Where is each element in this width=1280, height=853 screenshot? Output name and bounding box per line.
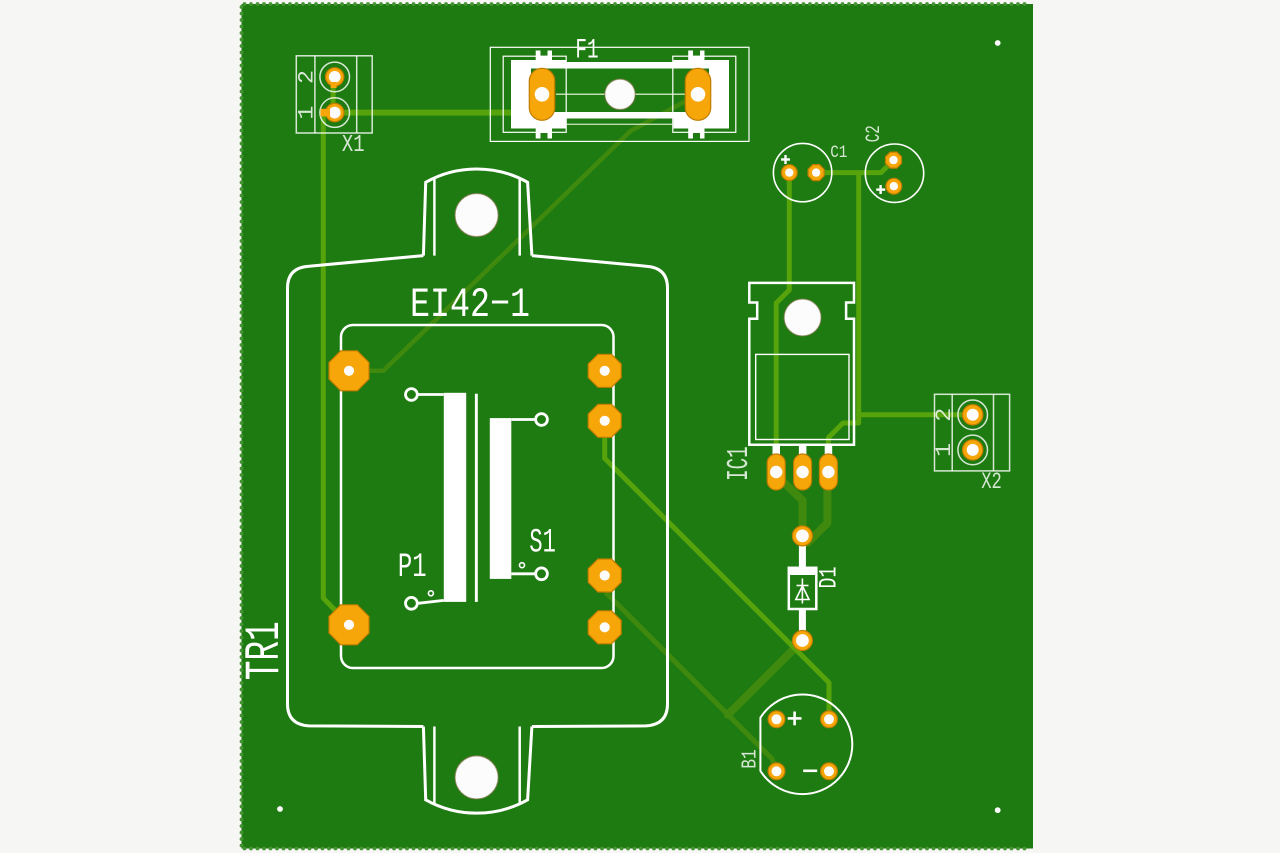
pad TR1 S-4 [588,611,621,644]
regulator IC1 inner rect [756,354,849,439]
svg-text:EI42−1: EI42−1 [410,281,530,329]
pad IC1-2 [794,454,812,490]
pad X1-1 left stub [321,109,331,117]
diode D1 cathode band [789,569,817,576]
svg-text:S1: S1 [529,525,555,563]
fuse F1 left end fab rect [503,56,566,132]
transformer TR1 pin1 marker P [428,591,433,596]
wire X1 pad2 to X1 pad1 [331,77,336,113]
fuse F1 body bars [567,62,674,69]
pad F1-2 [685,68,710,120]
transformer TR1 primary winding bar [444,393,466,602]
svg-text:1: 1 [294,106,319,120]
diode D1 body outline [789,568,817,609]
capacitor C1 outline circle [773,143,831,201]
wire output net vertical C1/C2 to X2 [856,173,861,415]
diode D1 symbol [801,579,803,604]
svg-text:2: 2 [294,70,319,84]
transformer TR1 inner rect [341,325,614,668]
pad C2-2 [886,152,902,168]
transformer TR1 top mounting tab [423,169,532,256]
fuse F1 left clip tabs [536,51,552,61]
pad B1 - dc [768,763,785,780]
pad IC1-1 [767,454,785,490]
pad C1-2 [808,165,824,181]
svg-text:X1: X1 [342,132,365,159]
wire TR1 pad S1-top to B1 pad + ac [605,421,829,720]
wire C1 pad2 to C2 pad2 [816,160,893,173]
pad D1 bottom [792,631,812,651]
transformer TR1 top tab hole [455,194,498,237]
pad X1-1 silk circle [320,98,350,128]
wire D1 bottom pad to junction with TR1 S1 net (back copper) [728,641,803,715]
pad B1 ac1 [821,711,838,728]
fuse F1 center fab line [556,93,685,95]
wire output net horizontal to X2 pad2 [859,412,973,417]
wire IC1 pad1 to D1 top pad (back copper) [776,472,802,536]
pad C1-1 plus [781,165,797,181]
fuse F1 right end fab rect [673,56,736,132]
wire output net to IC1 pad3 [828,415,858,472]
connector X1 outline [296,56,372,133]
wire X1 pad1 to TR1 pad P-bottom [323,113,349,625]
pad TR1 P-top [329,351,369,391]
svg-text:D1: D1 [815,567,844,589]
wire C1 pad+ to IC1 pad1 [776,173,789,472]
fuse F1 right clip silk [674,60,730,129]
pad X1-2 [326,68,344,86]
fuse F1 right clip tabs [688,51,704,61]
pad X2-1 [963,440,983,460]
wire TR1 pad S1-bottom to B1 pad - ac (back copper) [605,576,777,772]
svg-text:X2: X2 [981,469,1002,495]
bridge B1 plus mark [793,712,796,726]
regulator IC1 body outline [749,283,854,445]
pad TR1 S-1 [588,354,621,387]
wire X1 pad1 to F1 pad1 [335,94,542,112]
capacitor C2 outline circle [865,144,923,202]
fiducial bottom left [277,806,283,812]
pad B1 ac2 [821,763,838,780]
bridge B1 minus mark [803,769,817,772]
pad TR1 S-3 [588,559,621,592]
transformer TR1 bottom tab hole [455,756,498,799]
transformer TR1 secondary top pin [511,418,535,421]
svg-text:2: 2 [932,408,957,422]
svg-text:C1: C1 [830,143,847,163]
regulator IC1 leads [773,445,781,466]
regulator IC1 tab hole [784,299,821,336]
pad F1-1 [529,68,554,120]
diode D1 leads [799,546,806,569]
pad B1 + dc [768,711,785,728]
pad X2-1 silk circle [958,435,988,465]
transformer TR1 core line [475,394,478,602]
svg-text:IC1: IC1 [722,446,757,481]
svg-text:1: 1 [932,443,957,457]
svg-text:B1: B1 [738,749,762,768]
svg-text:P1: P1 [398,549,427,587]
transformer TR1 pin1 marker S [520,563,525,568]
capacitor C2 plus mark [879,185,881,194]
connector X2 outline [935,394,1010,471]
pad TR1 P-bottom [329,605,369,645]
pad X1-1 [326,103,344,121]
wire F1 pad2 to TR1 pad P-top (back copper) [349,94,698,371]
transformer TR1 secondary winding bar [490,418,512,579]
pad X1-2 silk circle [320,62,350,92]
pad X2-2 silk circle [958,400,988,430]
fuse F1 center hole [605,79,635,109]
fuse F1 outer fab rect [490,47,749,141]
fiducial top right [995,40,1001,46]
fiducial bottom right [995,807,1001,813]
wire IC1 pad3 to D1 top pad (back copper) [803,472,827,543]
transformer TR1 secondary bottom pin [511,572,535,575]
pad TR1 S-2 [588,404,621,437]
svg-text:C2: C2 [863,125,886,142]
pad X2-2 [963,405,983,425]
bridge B1 outline circle with flat [760,695,852,795]
board edge scallops [240,2,1027,850]
transformer TR1 body outline [288,256,424,727]
transformer TR1 primary bottom pin [418,600,444,603]
svg-text:F1: F1 [575,35,598,66]
transformer TR1 primary top pin [418,393,444,396]
PCB board substrate [242,4,1034,849]
pad IC1-3 [819,454,837,490]
pad D1 top [792,526,812,546]
fuse F1 body bottom fab line [567,123,674,125]
transformer TR1 bottom mounting tab [423,727,532,814]
svg-text:TR1: TR1 [237,621,293,680]
pad X1-2 bottom stub [331,82,337,88]
pad C2-1 plus [886,178,902,194]
capacitor C1 plus mark [784,155,786,164]
fuse F1 left clip silk [511,60,567,129]
